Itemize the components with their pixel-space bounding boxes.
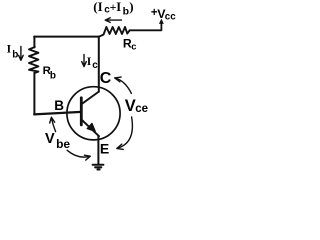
transistor collector diagonal <box>81 92 98 105</box>
wire collector vertical <box>98 37 100 92</box>
svg-text:I: I <box>7 44 12 56</box>
Vcc terminal arrow <box>159 19 163 23</box>
arrow Vce arc lower <box>117 117 133 148</box>
svg-text:b: b <box>123 6 129 18</box>
svg-text:C: C <box>100 70 112 87</box>
svg-text:B: B <box>54 98 64 113</box>
svg-text:be: be <box>56 137 70 151</box>
svg-text:I: I <box>116 0 121 14</box>
arrow Ic down <box>82 55 87 67</box>
wire left vertical lead to Rb <box>33 37 35 48</box>
svg-text:V: V <box>45 131 55 147</box>
svg-text:b: b <box>50 71 56 82</box>
wire emitter vertical <box>97 136 99 165</box>
wire base horizontal <box>34 112 81 115</box>
transistor emitter diagonal <box>81 120 99 137</box>
svg-text:b: b <box>12 49 18 60</box>
wire top rail <box>34 36 99 38</box>
svg-text:): ) <box>129 0 133 14</box>
svg-text:c: c <box>92 60 98 71</box>
svg-text:E: E <box>100 140 109 156</box>
svg-text:cc: cc <box>165 11 176 22</box>
arrow Vbe arc to E <box>67 150 90 160</box>
transistor base bar <box>80 98 83 125</box>
svg-text:V: V <box>125 97 136 115</box>
wire Rc to Vcc riser <box>130 24 162 30</box>
resistor Rc <box>99 27 130 37</box>
arrow Ib down <box>19 47 24 61</box>
wire Rb bottom lead <box>33 73 35 115</box>
resistor Rb <box>29 47 38 73</box>
transistor Q1 circle <box>67 87 120 140</box>
transistor emitter arrowhead <box>87 123 95 131</box>
ground <box>93 164 104 166</box>
svg-text:I: I <box>87 56 92 68</box>
svg-text:I: I <box>98 0 103 14</box>
arrow Ic+Ib left <box>105 18 121 23</box>
svg-text:ce: ce <box>135 103 148 115</box>
arrow Vbe to B <box>50 117 56 131</box>
svg-text:c: c <box>131 41 136 51</box>
arrow Vce arc upper <box>115 78 131 94</box>
